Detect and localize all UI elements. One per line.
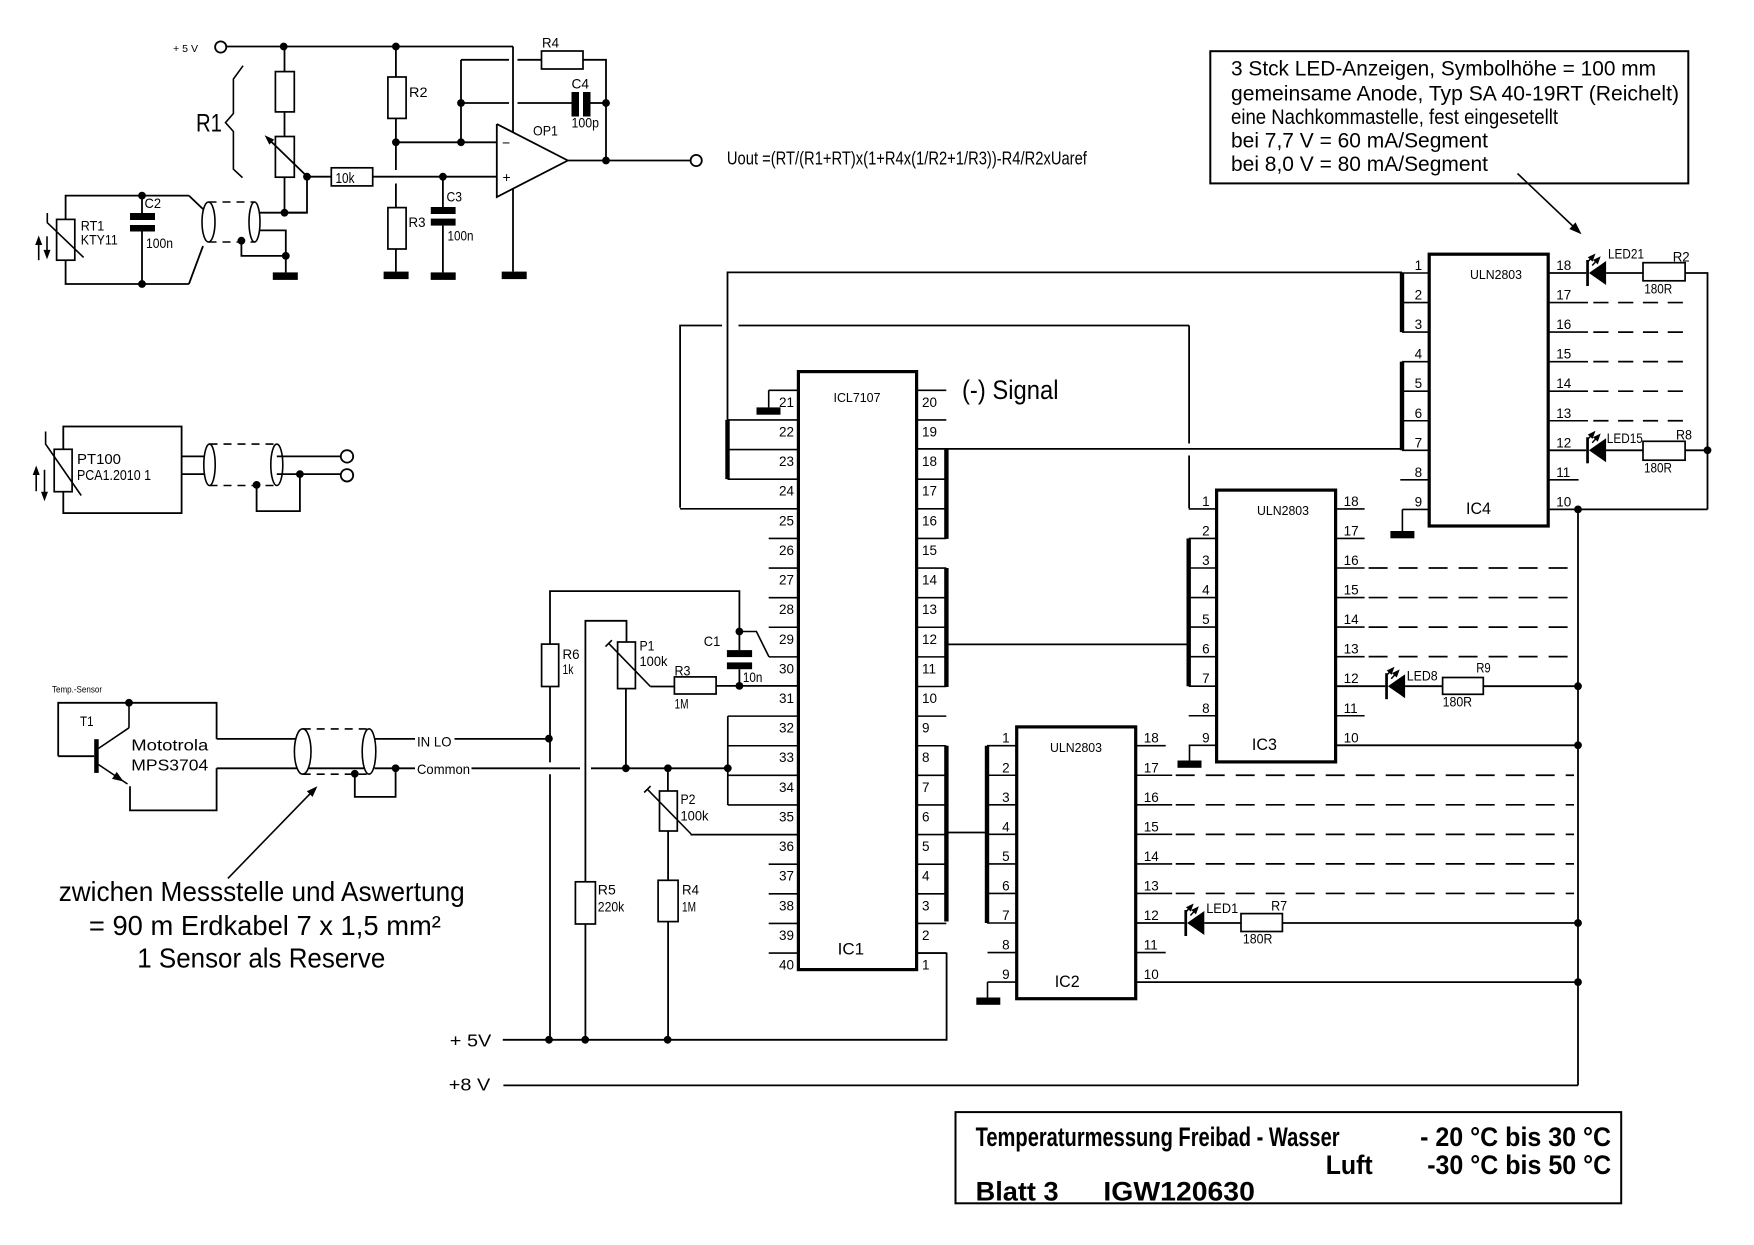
junction dot +5V rail / R1 divider: [280, 43, 288, 51]
wire C1 top zigzag to IC1 pin 30: [739, 632, 769, 657]
wire cable upper conductor to pot bottom: [256, 212, 307, 214]
svg-text:8: 8: [1202, 701, 1210, 716]
svg-text:R1: R1: [196, 110, 222, 138]
svg-text:8: 8: [1415, 465, 1423, 480]
arrows RT1 variability: [38, 244, 40, 260]
svg-text:1 Sensor als Reserve: 1 Sensor als Reserve: [137, 943, 385, 974]
resistor R3 1M (integrator): [650, 686, 674, 688]
junction dot inverting node / feedback: [457, 138, 465, 146]
op-amp OP1: [497, 124, 568, 197]
svg-text:R4: R4: [542, 35, 559, 51]
wire P2 top to Common: [667, 768, 669, 791]
svg-text:T1: T1: [80, 713, 94, 729]
svg-text:26: 26: [779, 543, 794, 558]
node PT100 terminal lower: [341, 469, 353, 481]
wire IN LO to R6 branch: [455, 738, 549, 740]
wire IC1 left pin stubs: [769, 389, 799, 391]
wire T1 upper conductor to cable: [217, 738, 303, 740]
svg-text:+ 5 V: + 5 V: [173, 43, 198, 55]
wire IC1 pin1 to +5V rail: [917, 952, 947, 954]
resistor R6 1k: [542, 644, 559, 686]
svg-text:(-) Signal: (-) Signal: [962, 375, 1059, 405]
svg-text:P2: P2: [681, 791, 696, 807]
svg-text:+ 5V: + 5V: [450, 1031, 492, 1051]
wire IC1 pin25 to IC3 pin1 (horizontal, hops pin22 net): [680, 326, 722, 508]
wire IC1 bus to IC2 bus: [947, 832, 987, 834]
svg-text:LED15: LED15: [1607, 430, 1643, 446]
wire T1 shield tie: [355, 768, 396, 797]
resistor R1 potentiometer element: [275, 137, 294, 178]
svg-text:3: 3: [922, 898, 930, 913]
wire C4 right plate to output branch: [591, 102, 607, 104]
svg-text:37: 37: [779, 869, 794, 884]
svg-text:C2: C2: [145, 195, 162, 211]
svg-text:12: 12: [1556, 435, 1571, 450]
svg-text:180R: 180R: [1644, 281, 1672, 297]
junction dot IC4 pin10 / +8V riser: [1574, 506, 1582, 514]
ground IC3 pin 9: [1189, 745, 1191, 760]
svg-text:4: 4: [1002, 819, 1010, 834]
svg-text:8: 8: [1002, 938, 1010, 953]
junction dot inverting node / R2: [392, 138, 400, 146]
svg-text:Mototrola: Mototrola: [131, 738, 208, 755]
svg-text:C1: C1: [704, 633, 721, 649]
node PT100 terminal upper: [341, 450, 353, 462]
wire IC3 pins 16-13 segment lines (dashed): [1336, 567, 1365, 569]
svg-text:12: 12: [922, 632, 937, 647]
svg-text:-30 °C bis 50 °C: -30 °C bis 50 °C: [1427, 1150, 1611, 1180]
svg-text:18: 18: [1344, 494, 1359, 509]
arrows PT100 variability: [35, 474, 37, 491]
capacitor C4: [572, 92, 580, 117]
node +5V supply terminal: [215, 41, 226, 52]
wire P2 bottom to R4: [667, 831, 669, 880]
svg-text:R3: R3: [409, 214, 426, 230]
junction dot riser / R7: [1574, 919, 1582, 927]
wire IC4 pin 12 to LED15: [1548, 449, 1586, 451]
svg-text:24: 24: [779, 484, 795, 499]
svg-text:1: 1: [922, 958, 930, 973]
svg-text:IC2: IC2: [1055, 972, 1080, 991]
cable shield symbol (RT1 sensor cable): [209, 201, 255, 203]
wire R2 to riser: [1685, 273, 1707, 509]
svg-text:3 Stck LED-Anzeigen, Symbolhöh: 3 Stck LED-Anzeigen, Symbolhöhe = 100 mm: [1231, 57, 1656, 81]
svg-text:15: 15: [1344, 583, 1359, 598]
svg-text:4: 4: [1415, 347, 1423, 362]
svg-text:IC1: IC1: [838, 940, 865, 959]
svg-text:9: 9: [1002, 967, 1010, 982]
op IC2 ULN2803 box: [1017, 727, 1136, 999]
svg-text:13: 13: [1556, 406, 1571, 421]
wire IC3 pin 10 to +8V riser: [1336, 744, 1578, 746]
svg-text:LED21: LED21: [1608, 246, 1644, 262]
wire +5V supply drop to OP1: [512, 47, 514, 134]
sensor RT1 KTY11 (temperature dependent resistor): [57, 219, 75, 260]
junction dot PT100 shield: [253, 481, 261, 489]
wire RT1 loop left/top: [66, 196, 189, 220]
svg-text:5: 5: [1415, 376, 1423, 391]
svg-text:1: 1: [1002, 731, 1010, 746]
wire IC2 pins 1-7 bus bar: [985, 746, 989, 923]
wire P2 wiper to IC1 pin 36: [691, 834, 799, 836]
svg-text:= 90 m Erdkabel 7 x 1,5 mm²: = 90 m Erdkabel 7 x 1,5 mm²: [89, 910, 441, 941]
svg-text:14: 14: [1144, 849, 1160, 864]
wire IC4 left pin stubs: [1402, 272, 1429, 274]
wire to C4 left (hops +5V drop): [461, 102, 509, 104]
ground C3: [442, 226, 444, 273]
svg-text:OP1: OP1: [533, 123, 558, 139]
svg-text:7: 7: [922, 780, 930, 795]
svg-text:5: 5: [922, 839, 930, 854]
wire R5 bottom to +5V rail: [584, 924, 586, 1040]
wire feedback vertical: [460, 60, 462, 143]
svg-text:8: 8: [922, 750, 930, 765]
wire R8 to riser: [1685, 449, 1707, 451]
svg-text:+8 V: +8 V: [449, 1075, 491, 1095]
junction dot R1 wiper node: [303, 173, 311, 181]
resistor R8 180R: [1643, 441, 1685, 460]
junction dot R8 / riser: [1704, 446, 1712, 454]
wire IN LO conductor: [375, 738, 416, 740]
svg-text:Blatt 3: Blatt 3: [976, 1177, 1059, 1207]
svg-text:14: 14: [1556, 376, 1572, 391]
junction dot PT100 lower conductor / shield tie: [296, 470, 304, 478]
ground sensor cable shield: [285, 256, 287, 273]
transistor T1 (Mototrola MPS3704): [94, 739, 99, 773]
wire R6 bottom to +5V rail (hops Common): [549, 687, 551, 763]
svg-text:R6: R6: [563, 646, 580, 662]
svg-text:31: 31: [779, 691, 794, 706]
wire IC3 left pin stubs: [1189, 508, 1217, 510]
wire IC3 pins 2-7 bus bar: [1186, 538, 1190, 686]
wire wiper node down to cable conductor: [285, 177, 308, 213]
ground IC1 pin 21: [768, 390, 770, 407]
svg-text:13: 13: [1144, 878, 1159, 893]
wire IC1 pins 22-24 bus bar: [725, 420, 729, 479]
svg-text:2: 2: [922, 928, 930, 943]
svg-text:1: 1: [1415, 258, 1423, 273]
svg-text:10: 10: [1144, 967, 1159, 982]
svg-text:18: 18: [1556, 258, 1571, 273]
wire PT100 cable to terminals upper: [277, 455, 341, 457]
wire RT1 loop bottom: [66, 260, 189, 284]
junction dot +5V rail / R2: [392, 43, 400, 51]
svg-text:IC4: IC4: [1466, 499, 1491, 518]
svg-text:100n: 100n: [448, 228, 474, 244]
op-amp IC1 box ICL7107: [798, 372, 916, 970]
trimmer P1 100k: [618, 642, 636, 689]
svg-text:33: 33: [779, 750, 794, 765]
svg-text:9: 9: [1415, 494, 1423, 509]
label R1 with brace: [226, 66, 244, 178]
svg-text:17: 17: [922, 484, 937, 499]
op IC3 ULN2803 box: [1217, 490, 1336, 762]
wire IC3 pin 12 to LED8: [1336, 685, 1386, 687]
svg-text:R2: R2: [1673, 249, 1690, 265]
svg-text:ICL7107: ICL7107: [834, 390, 881, 405]
wire IC4 pin 11 stub: [1548, 479, 1578, 481]
svg-text:39: 39: [779, 928, 794, 943]
junction dot non-inverting node / C3: [439, 173, 447, 181]
junction dot C4 right: [602, 99, 610, 107]
diode LED21: [1586, 260, 1589, 286]
op IC1 digital nets: (-) Signal loop: [728, 272, 1403, 420]
wire IC1 pin18 to IC4 pins4-7: [917, 448, 1402, 450]
svg-text:2: 2: [1002, 760, 1010, 775]
wire IC3 pin 17 stub: [1336, 537, 1365, 539]
junction dot output / feedback: [602, 157, 610, 165]
node Uout output terminal: [691, 155, 702, 166]
junction dot pot bottom / cable conductor: [281, 209, 289, 217]
svg-text:17: 17: [1556, 288, 1571, 303]
svg-text:Luft: Luft: [1326, 1150, 1373, 1180]
diode LED1: [1184, 910, 1187, 936]
wire T1 lower conductor to cable: [217, 767, 369, 769]
junction dot shield/conductor ground node: [282, 252, 290, 260]
svg-text:19: 19: [922, 424, 937, 439]
arrow annotation to sensor cable: [228, 790, 314, 879]
svg-text:bei 7,7 V = 60 mA/Segment: bei 7,7 V = 60 mA/Segment: [1231, 129, 1488, 153]
wire +5V rail: [503, 953, 947, 1040]
diode LED15: [1586, 437, 1589, 463]
svg-text:34: 34: [779, 780, 795, 795]
resistor R4 1M: [658, 880, 678, 921]
svg-text:P1: P1: [640, 638, 655, 654]
svg-text:10: 10: [1344, 730, 1359, 745]
svg-text:23: 23: [779, 454, 794, 469]
svg-text:35: 35: [779, 809, 794, 824]
svg-text:16: 16: [1556, 317, 1571, 332]
wire +8V rail: [503, 1084, 1578, 1086]
wire 10k to OP1 non-inverting input: [373, 176, 497, 178]
wire IC2 pin 18 stub: [1136, 745, 1166, 747]
junction dot riser / IC3 pin10: [1574, 741, 1582, 749]
wire R4 bottom to +5V rail: [667, 922, 669, 1040]
wire Common to IC1 (hops R5 branch): [472, 767, 581, 769]
svg-text:20: 20: [922, 395, 937, 410]
svg-text:180R: 180R: [1243, 931, 1273, 947]
label title block: [956, 1112, 1622, 1203]
svg-text:R5: R5: [598, 882, 616, 898]
svg-text:12: 12: [1344, 671, 1359, 686]
capacitor C1 10n: [727, 650, 752, 657]
svg-text:15: 15: [1144, 819, 1159, 834]
svg-text:10: 10: [1556, 494, 1571, 509]
wire IC1 pins 32-35 bracket: [727, 716, 729, 805]
svg-text:9: 9: [922, 721, 930, 736]
svg-text:11: 11: [1556, 465, 1570, 480]
svg-text:zwichen Messstelle und Aswertu: zwichen Messstelle und Aswertung: [59, 876, 465, 907]
wire PT100 lower conductor: [182, 473, 210, 475]
resistor R9 180R: [1443, 678, 1484, 695]
transistor T1 sensor block outline: [58, 703, 216, 756]
svg-text:ULN2803: ULN2803: [1257, 503, 1309, 518]
svg-text:3: 3: [1415, 317, 1423, 332]
svg-text:6: 6: [1415, 406, 1423, 421]
op IC4 ULN2803 box: [1429, 254, 1548, 526]
wire LED21 to R2: [1606, 272, 1643, 274]
svg-text:10k: 10k: [336, 171, 356, 187]
wire LED15 to R8: [1606, 449, 1643, 451]
wire IC1 right bus bar pins 14-10: [944, 568, 948, 687]
svg-text:MPS3704: MPS3704: [131, 757, 208, 774]
svg-text:PCA1.2010 1: PCA1.2010 1: [77, 467, 151, 484]
svg-text:Temperaturmessung Freibad - W: Temperaturmessung Freibad - Wasser: [976, 1122, 1340, 1152]
wire into cable shield lower: [189, 246, 203, 284]
svg-text:13: 13: [922, 602, 937, 617]
svg-text:C4: C4: [572, 76, 590, 92]
svg-text:100n: 100n: [146, 235, 173, 251]
wire R9 to +8V riser: [1483, 685, 1578, 687]
resistor R1 upper element: [284, 47, 286, 72]
svg-text:bei 8,0 V = 80 mA/Segment: bei 8,0 V = 80 mA/Segment: [1231, 152, 1488, 176]
svg-text:3: 3: [1202, 553, 1210, 568]
svg-text:22: 22: [779, 424, 794, 439]
svg-text:12: 12: [1144, 908, 1159, 923]
wire IC3 pin1 vertical (hops pin18 net): [1188, 326, 1190, 444]
svg-text:7: 7: [1002, 908, 1010, 923]
svg-text:−: −: [502, 135, 510, 151]
wire R4 right to output node: [583, 60, 606, 161]
wire IC4 pins 17-13 segment lines (dashed): [1548, 302, 1588, 304]
wire IC4 pin 18 to LED21: [1548, 272, 1586, 274]
junction dot shield tie: [238, 237, 246, 245]
svg-text:IC3: IC3: [1252, 735, 1277, 754]
wire LED8 to R9: [1405, 685, 1443, 687]
svg-text:1M: 1M: [675, 696, 689, 712]
junction dot T1 cable shield: [351, 770, 359, 778]
svg-text:IN LO: IN LO: [417, 734, 452, 750]
svg-text:40: 40: [779, 958, 794, 973]
svg-text:5: 5: [1002, 849, 1010, 864]
svg-text:R3: R3: [675, 663, 691, 679]
svg-text:9: 9: [1202, 730, 1210, 745]
arrow note box to LED21: [1518, 174, 1577, 230]
svg-text:100p: 100p: [572, 115, 600, 131]
wire +5V top rail: [226, 46, 513, 48]
junction dot +5V / R5: [581, 1036, 589, 1044]
capacitor C2: [141, 196, 143, 213]
svg-text:PT100: PT100: [77, 451, 121, 468]
ground IC2 pin 9: [987, 982, 989, 997]
wire IC2 pin 11 stub: [1136, 952, 1166, 954]
svg-text:R7: R7: [1271, 898, 1287, 914]
svg-text:3: 3: [1002, 790, 1010, 805]
svg-text:16: 16: [1344, 553, 1359, 568]
svg-text:220k: 220k: [598, 899, 625, 915]
svg-text:27: 27: [779, 573, 794, 588]
trimmer P2 100k: [660, 791, 678, 831]
wire IC2 pins 17-13 segment lines (dashed): [1136, 774, 1173, 776]
svg-text:R9: R9: [1476, 660, 1491, 676]
wire cable lower conductor: [256, 230, 286, 256]
svg-text:100k: 100k: [640, 653, 669, 669]
svg-text:KTY11: KTY11: [81, 232, 118, 248]
wire IC3 pin 18 stub: [1336, 508, 1365, 510]
svg-text:Uout =(RT/(R1+RT)x(1+R4x(1/R2+: Uout =(RT/(R1+RT)x(1+R4x(1/R2+1/R3))-R4/…: [727, 149, 1088, 169]
wire IC3 pin 11 stub: [1336, 715, 1365, 717]
svg-text:18: 18: [1144, 731, 1159, 746]
svg-text:5: 5: [1202, 612, 1210, 627]
wire OP1 output: [568, 160, 691, 162]
svg-text:LED8: LED8: [1407, 668, 1438, 684]
cable shield symbol (PT100 cable): [210, 443, 277, 445]
wire IC4 pins 4-7 bus bar: [1400, 362, 1404, 451]
svg-text:15: 15: [922, 543, 937, 558]
ground OP1 negative supply: [512, 189, 514, 272]
wire IC1 right bus bar pins 18-15: [944, 450, 948, 539]
svg-text:28: 28: [779, 602, 794, 617]
wire LED1 to R7: [1204, 922, 1241, 924]
svg-text:10: 10: [922, 691, 937, 706]
svg-text:ULN2803: ULN2803: [1050, 740, 1102, 755]
svg-text:21: 21: [779, 395, 794, 410]
resistor 10k (box style): [307, 176, 331, 178]
wire IC2 pin 12 to LED1: [1136, 922, 1185, 924]
wire IC2 left pin stubs: [987, 745, 1017, 747]
junction dot C2 top: [138, 192, 146, 200]
junction dot feedback / C4 left: [457, 99, 465, 107]
wire R3 to IC1 pin 31: [716, 685, 798, 687]
resistor R2 180R (segment resistor): [1643, 263, 1685, 281]
resistor R7 180R: [1241, 914, 1282, 932]
svg-text:11: 11: [1144, 938, 1158, 953]
svg-text:16: 16: [1144, 790, 1159, 805]
junction dot Common / P2 top: [664, 764, 672, 772]
svg-text:16: 16: [922, 513, 937, 528]
junction dot riser / R9: [1574, 682, 1582, 690]
wire IC4 pins 1-3 bus bar: [1400, 273, 1404, 332]
junction dot IN LO / R6 branch: [545, 735, 553, 743]
svg-text:4: 4: [1202, 583, 1210, 598]
wire shield tie to ground node: [241, 241, 285, 256]
junction dot T1 collector to loop: [125, 699, 133, 707]
svg-text:180R: 180R: [1443, 694, 1473, 710]
wire PT100 cable to terminals lower: [277, 473, 341, 475]
svg-text:36: 36: [779, 839, 794, 854]
svg-text:IGW120630: IGW120630: [1103, 1177, 1255, 1207]
svg-text:11: 11: [922, 661, 936, 676]
svg-text:25: 25: [779, 513, 794, 528]
svg-text:R8: R8: [1676, 427, 1692, 443]
svg-text:6: 6: [1002, 878, 1010, 893]
svg-text:180R: 180R: [1644, 460, 1672, 476]
svg-text:2: 2: [1415, 288, 1423, 303]
svg-text:2: 2: [1202, 523, 1210, 538]
resistor R3: [395, 142, 397, 170]
wire Common conductor: [375, 767, 416, 769]
diode LED8: [1385, 673, 1388, 699]
junction dot Common / shield tie: [392, 764, 400, 772]
ground R3: [395, 249, 397, 272]
resistor PT100 element: [54, 449, 72, 491]
resistor R4 feedback: [542, 51, 584, 69]
wire IC1 bus to IC3 bus: [947, 643, 1189, 645]
resistor R2: [395, 47, 397, 78]
wire to R4 left (hops +5V drop): [461, 59, 509, 61]
junction dot riser / IC2 pin10: [1574, 978, 1582, 986]
capacitor C3: [442, 177, 444, 207]
wire IC1 right bus bar pins 8-2: [944, 746, 948, 922]
svg-text:7: 7: [1202, 671, 1210, 686]
svg-text:1: 1: [1202, 494, 1210, 509]
wire +8V riser (right vertical rail): [1577, 509, 1579, 1085]
svg-text:Common: Common: [417, 761, 470, 777]
cable shield symbol (T1 sensor cable): [303, 728, 369, 730]
svg-text:14: 14: [922, 573, 938, 588]
wire P1 top to R5 branch: [585, 621, 626, 882]
svg-text:R4: R4: [682, 882, 699, 898]
